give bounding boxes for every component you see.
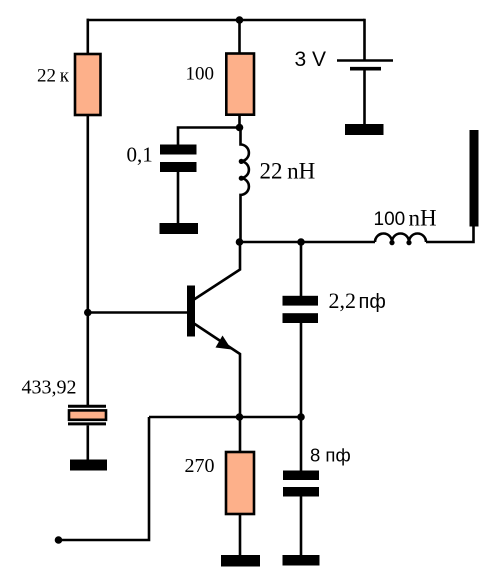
wire 22k top lead	[87, 19, 90, 54]
svg-text:22 к: 22 к	[37, 66, 70, 87]
svg-text:100: 100	[374, 209, 406, 230]
node input terminal	[55, 536, 63, 544]
svg-text:3 V: 3 V	[295, 48, 327, 71]
wire to C1	[178, 128, 240, 145]
wire C1 to ground	[177, 172, 180, 223]
node base junction	[84, 309, 92, 317]
ground (crystal)	[70, 460, 107, 471]
transistor Q1 collector lead	[194, 243, 240, 300]
wire base	[88, 311, 187, 314]
ground (270)	[221, 555, 260, 567]
capacitor C3 8pf plate top	[283, 471, 319, 481]
wire 270 top lead	[239, 417, 242, 452]
svg-text:пф: пф	[359, 291, 386, 313]
ground (C1)	[160, 223, 199, 234]
resistor R1 22k	[75, 54, 101, 115]
svg-text:0,1: 0,1	[127, 143, 153, 167]
resistor R2 100	[226, 54, 254, 115]
svg-text:100: 100	[186, 64, 215, 85]
node below R2	[236, 124, 244, 132]
capacitor C2 2,2pf plate top	[283, 296, 319, 306]
wire crystal to ground	[87, 425, 90, 460]
capacitor C1 0,1 plate bottom	[160, 162, 197, 172]
wire C2 top lead	[300, 242, 303, 296]
svg-text:2,2: 2,2	[329, 288, 357, 313]
inductor L2 cusp dot 2	[406, 240, 411, 245]
svg-text:nH: nH	[409, 206, 437, 231]
battery B1 long plate	[337, 59, 393, 62]
wire emitter rail	[149, 416, 301, 419]
transistor Q1 base bar	[187, 286, 195, 337]
ground (C3)	[283, 555, 320, 566]
wire collector rail	[240, 241, 376, 244]
inductor L2 100nH	[375, 234, 426, 243]
crystal X1 top plate	[68, 405, 106, 408]
battery B1 short plate	[350, 67, 381, 71]
transistor Q1 emitter arrow	[216, 336, 232, 350]
ground (battery)	[345, 124, 384, 135]
crystal X1 body	[69, 410, 106, 419]
wire input L	[59, 417, 150, 540]
wire left vertical (22k bottom to crystal)	[87, 115, 90, 405]
transistor Q1 emitter lead	[194, 324, 240, 418]
wire C3 top lead	[300, 417, 303, 471]
resistor R3 270	[226, 452, 254, 514]
wire C2 bottom lead	[300, 323, 303, 417]
wire 100-resistor top lead	[238, 19, 241, 54]
svg-text:22 nH: 22 nH	[260, 159, 316, 184]
node emitter junction	[236, 413, 244, 421]
node collector junction	[236, 238, 244, 246]
inductor L1 22nH	[241, 128, 249, 243]
svg-text:433,92: 433,92	[22, 377, 77, 399]
crystal X1 bottom plate	[68, 422, 106, 425]
capacitor C3 8pf plate bottom	[283, 487, 319, 497]
capacitor C2 2,2pf plate bottom	[283, 313, 319, 323]
svg-text:8 пф: 8 пф	[310, 445, 351, 466]
wire 270 to ground	[239, 514, 242, 556]
svg-text:270: 270	[185, 455, 215, 477]
wire 100-resistor bottom lead	[238, 115, 241, 128]
wire battery to ground	[363, 69, 366, 125]
antenna	[470, 130, 479, 227]
wire C3 to ground	[300, 497, 303, 557]
wire L2 to antenna	[426, 226, 474, 242]
node tank junction	[297, 238, 305, 246]
inductor L1 cusp dot 1	[239, 159, 244, 164]
wire battery top lead	[363, 20, 364, 61]
node C3 junction	[297, 413, 305, 421]
wire top rail	[87, 19, 365, 22]
inductor L1 cusp dot 2	[239, 176, 244, 181]
inductor L2 cusp dot 1	[389, 240, 394, 245]
capacitor C1 0,1 plate top	[160, 145, 197, 155]
node top rail junction	[236, 16, 244, 24]
